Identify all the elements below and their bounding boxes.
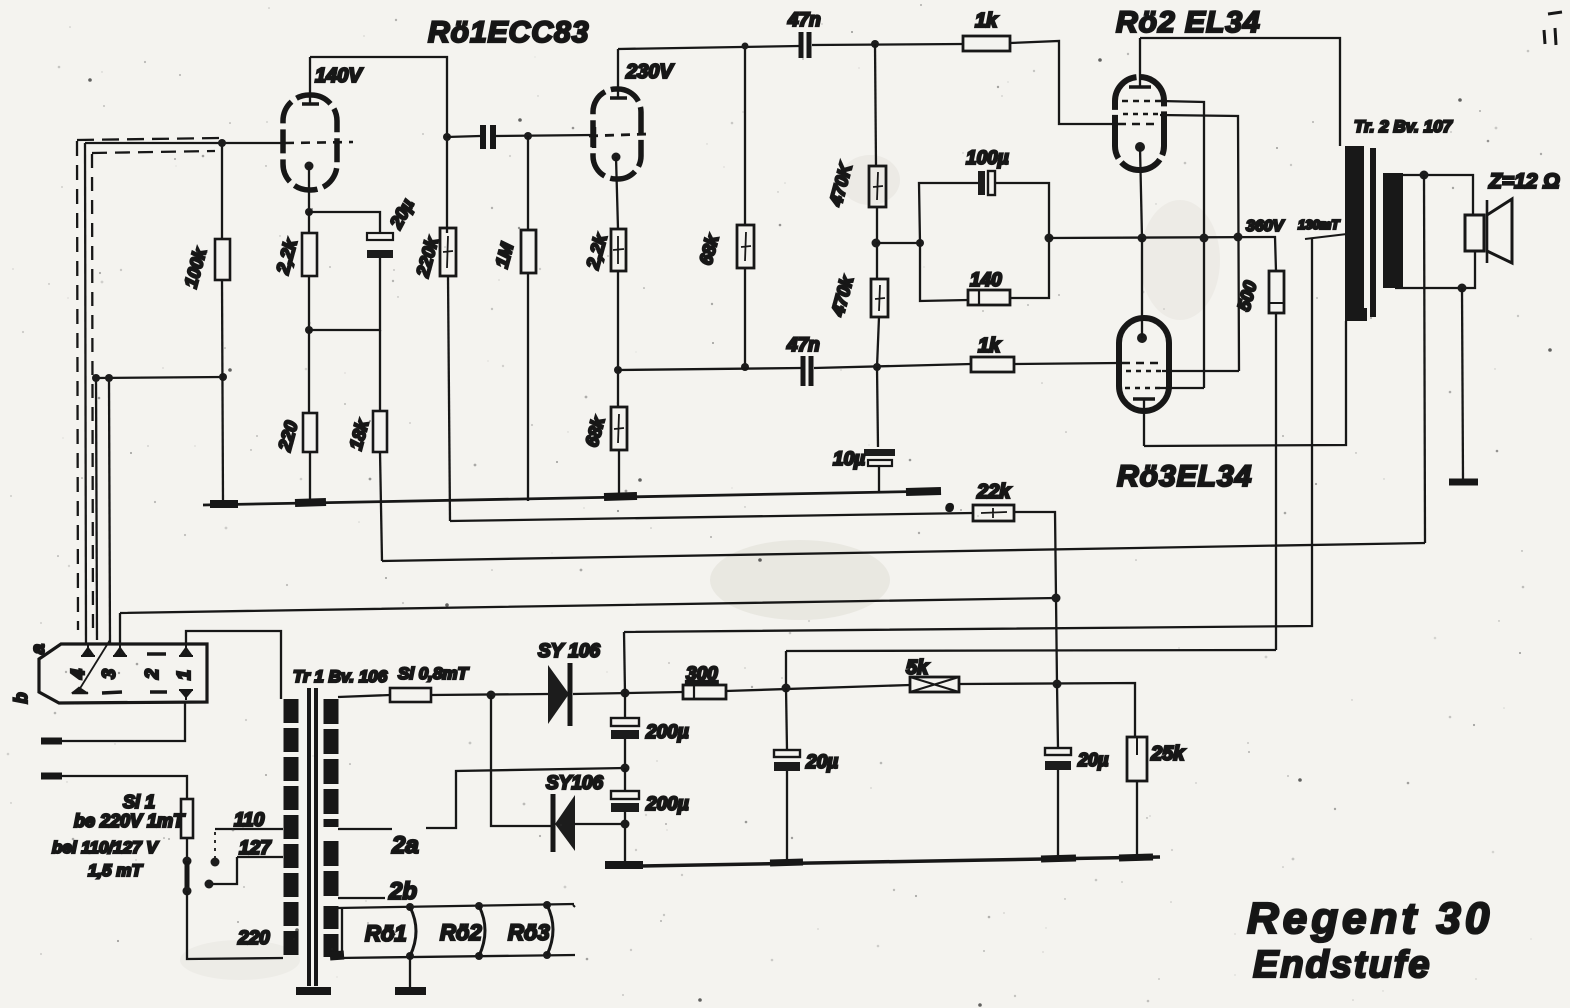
speaker horn — [1487, 199, 1512, 263]
svg-text:1k: 1k — [975, 10, 998, 32]
ground bus pad right end — [906, 491, 941, 492]
svg-text:bei 110/127 V: bei 110/127 V — [52, 838, 159, 857]
ground rail PSU — [641, 857, 1160, 866]
heater bus top — [338, 904, 574, 908]
connector switch arrow tip — [72, 688, 88, 693]
svg-text:e: e — [946, 499, 953, 514]
resistor 68k2 inner mark — [614, 414, 624, 443]
svg-text:a: a — [28, 644, 48, 654]
wire secondary bottom to speaker — [1395, 251, 1475, 288]
svg-text:Tr. 2 Bv. 107: Tr. 2 Bv. 107 — [1354, 117, 1454, 136]
resistor 22k inner mark — [981, 508, 1007, 518]
wire grid1 coupling — [447, 136, 480, 137]
tube Rö1b anode bar — [610, 96, 627, 99]
resistor 140 inner bar — [978, 290, 980, 305]
tube Rö1a anode bar — [302, 102, 319, 105]
wire 2a riser — [338, 768, 625, 829]
resistor 470k upper — [869, 166, 886, 207]
svg-text:5k: 5k — [906, 657, 929, 679]
node dot A — [92, 374, 100, 382]
wire Rö2 anode rail to primary top — [1140, 38, 1340, 146]
wire 2b tap — [338, 897, 385, 899]
node diode2 out — [621, 820, 630, 829]
wire 220R bottom to bus — [309, 452, 311, 503]
tube Rö1b anode lead — [617, 49, 619, 98]
svg-text:Rö3EL34: Rö3EL34 — [1117, 460, 1252, 493]
wire 1k2 to Rö3 grid — [1014, 363, 1119, 364]
mains stub 2 bar — [41, 773, 62, 780]
capacitor 20µ psu1 filled plate — [774, 762, 800, 771]
wire 220R top — [308, 330, 310, 413]
diode SY106 upper cathode bar — [568, 663, 573, 726]
resistor 18k — [373, 411, 387, 452]
capacitor 20µ psu1 hollow plate — [774, 750, 800, 757]
capacitor 47n bottom plate2 — [809, 356, 814, 386]
wire Rö3 anode to primary bottom — [1144, 321, 1346, 446]
capacitor 47n top plate2 — [807, 32, 812, 58]
switch contact dot upper — [183, 857, 192, 866]
transformer Tr1 core line left — [307, 688, 311, 986]
svg-text:110: 110 — [234, 810, 265, 831]
wire 100k bottom to bus — [222, 280, 223, 503]
svg-text:4: 4 — [68, 669, 88, 680]
svg-text:360V: 360V — [1246, 218, 1285, 235]
svg-text:22k: 22k — [976, 481, 1011, 503]
diode SY106 lower cathode bar — [551, 794, 556, 852]
ground rail pad 25k — [1119, 857, 1153, 858]
transformer Tr2 primary foot — [1345, 308, 1367, 321]
wire 200µ1 bottom to mid node — [624, 739, 626, 768]
tube Rö1b grid entry bar — [592, 127, 597, 148]
capacitor 100µ plate hollow — [988, 171, 995, 195]
wire 300 to 5k — [726, 685, 910, 691]
switch contact dot lower — [183, 887, 192, 896]
tap 127 contact dot — [205, 880, 214, 889]
svg-text:Rö2 EL34: Rö2 EL34 — [1116, 6, 1261, 39]
resistor 68k first — [737, 225, 754, 268]
tube Rö3 anode bar — [1133, 397, 1155, 401]
node anode1 junction — [443, 133, 451, 141]
tube Rö1a cathode lead — [308, 166, 310, 212]
connector switch diagonal — [79, 640, 110, 690]
wire Rö3 g2 to 1239 — [1162, 370, 1239, 372]
svg-text:Si 1: Si 1 — [123, 792, 155, 812]
capacitor 47n bottom plate1 — [801, 356, 806, 386]
heater node Rö3 top — [543, 901, 551, 909]
svg-text:1: 1 — [174, 670, 194, 680]
wire 10µ to ground bus — [878, 466, 880, 492]
resistor 300 body — [683, 685, 726, 699]
resistor 1k top — [963, 36, 1010, 51]
node speaker ground tap — [1458, 284, 1467, 293]
wire 1k to Rö2 grid — [1010, 41, 1115, 124]
wire 2,2k2 bottom — [617, 271, 619, 407]
wire 68k2 bottom to bus — [618, 450, 620, 497]
wire 5k to 25k corner — [959, 683, 1135, 737]
capacitor 20µ plate top — [367, 233, 393, 240]
svg-text:2b: 2b — [388, 878, 417, 905]
svg-text:20µ: 20µ — [1077, 750, 1109, 770]
svg-text:b: b — [11, 693, 31, 704]
capacitor 100µ plate filled — [978, 171, 985, 195]
wire Rö2 g3 to 1204 — [1161, 101, 1204, 388]
svg-text:230V: 230V — [625, 61, 674, 83]
wire switch to 220 tap — [187, 891, 283, 959]
mains stub 1 bar — [41, 738, 62, 745]
tube Rö1a cathode dot — [305, 162, 314, 171]
wire fuse to switch — [186, 838, 188, 861]
wire pin3 line C long to 22k node — [120, 598, 1056, 645]
tube Rö2 cathode dot — [1135, 142, 1145, 152]
tap 110 wire — [215, 828, 283, 830]
ground bus pad 220R — [295, 502, 326, 503]
wire 470k mid — [876, 207, 878, 279]
wire 100k top — [221, 143, 223, 239]
node 47n2 line 68k — [741, 363, 749, 371]
resistor 25k inner line — [1136, 737, 1138, 755]
tube Rö2 g2 dashes — [1123, 113, 1160, 116]
wire 20µ psu1 bottom — [786, 771, 788, 862]
transformer Tr1 HV secondary winding — [324, 699, 339, 827]
wire bypass bottom — [309, 258, 380, 330]
node grid2 — [524, 132, 532, 140]
heater winding corner blob — [330, 955, 344, 956]
wire 47n2 line left — [618, 368, 801, 370]
resistor 100k — [215, 239, 230, 280]
wire 1M top — [527, 136, 529, 230]
svg-text:300: 300 — [686, 664, 718, 685]
node 47n2 left — [614, 366, 622, 374]
resistor 2,2k first — [302, 233, 317, 276]
wire feedback drop — [1424, 175, 1425, 543]
capacitor 20µ psu2 filled plate — [1045, 761, 1071, 770]
diode SY106 upper triangle — [548, 665, 569, 724]
svg-text:Endstufe: Endstufe — [1253, 944, 1432, 986]
resistor 220k inner mark — [443, 236, 453, 268]
wire Rö3 g3 to 1204 — [1160, 387, 1204, 389]
wire Rö2 g2 to 1238 — [1160, 115, 1239, 371]
wire 18k bottom feedback — [380, 452, 382, 561]
wire 470k2 bottom — [877, 317, 879, 367]
svg-text:Rö2: Rö2 — [440, 920, 482, 945]
resistor 22k — [973, 505, 1014, 521]
node screen feed tap — [782, 684, 791, 693]
tube Rö1a anode lead — [309, 57, 311, 104]
node feedback tap — [1420, 171, 1429, 180]
resistor 5k body — [910, 677, 959, 692]
wire 22k right down — [1014, 512, 1057, 684]
heater node Rö2 bottom — [475, 952, 483, 960]
node dot grid1 — [218, 139, 226, 147]
fuse Si 0,8mT — [390, 688, 431, 702]
node 470k top feed — [871, 40, 879, 48]
wire diode2 to cap node — [575, 823, 625, 825]
svg-text:2: 2 — [142, 669, 162, 680]
connector bottom dash pin2 — [150, 690, 167, 693]
heater brace Rö3 — [547, 905, 553, 955]
node B+ — [621, 689, 630, 698]
capacitor 20µ psu2 hollow plate — [1045, 748, 1071, 755]
scan speck bottom — [392, 905, 575, 935]
wire speaker ground drop — [1462, 288, 1463, 480]
label 130mT underline arrow — [1305, 227, 1347, 239]
svg-text:Tr 1 Bv. 106: Tr 1 Bv. 106 — [293, 667, 388, 686]
wire 200µ1 top — [624, 693, 626, 718]
tube Rö3 g1 dashes — [1122, 362, 1160, 365]
wire 47n to 1k — [812, 44, 963, 45]
wire diode1 to B+ node — [573, 692, 683, 694]
svg-text:SY106: SY106 — [546, 773, 603, 794]
tap 127 wire — [237, 856, 283, 858]
capacitor 200µ lower filled plate — [611, 803, 639, 812]
wire 18k top — [379, 330, 381, 411]
ground bus main — [203, 491, 941, 505]
ground bus pad left — [210, 500, 238, 508]
fuse Si1 — [181, 799, 193, 838]
ground heater — [395, 987, 426, 995]
resistor 68k1 inner mark — [741, 232, 751, 261]
tube Rö2 g1 dashes — [1118, 123, 1158, 126]
resistor 25k — [1127, 737, 1147, 781]
svg-text:25k: 25k — [1150, 743, 1185, 765]
wire 200µ2 bottom — [624, 812, 626, 864]
shield dashed vertical left — [77, 141, 78, 630]
capacitor 10µ plate filled — [864, 449, 895, 456]
line C2 center tap return — [624, 238, 1312, 632]
svg-text:220: 220 — [237, 928, 270, 949]
wire secondary top to speaker — [1388, 175, 1473, 215]
resistor 5k X mark — [910, 677, 959, 692]
ground bus pad 68k — [604, 496, 637, 497]
capacitor coupling plate2 — [490, 125, 496, 149]
connector bottom dash pin3 — [102, 692, 122, 693]
wire pin1 up over connector — [186, 631, 281, 699]
tap 110 contact dot — [211, 858, 220, 867]
resistor 140 body — [968, 290, 1010, 305]
switch bar — [185, 861, 190, 891]
ground rail left bar — [605, 861, 643, 869]
svg-text:Rö3: Rö3 — [508, 920, 550, 945]
wire 20µ psu2 leads — [1057, 684, 1058, 858]
transformer Tr1 core line right — [314, 688, 318, 986]
resistor 470k lower — [871, 279, 888, 317]
tube Rö3 g3 dashes — [1125, 387, 1160, 390]
svg-text:47n: 47n — [787, 10, 821, 31]
shield dashed line inner — [92, 151, 215, 153]
wire 68k1 bottom — [744, 268, 746, 367]
tube Rö1b envelope — [593, 89, 641, 179]
transformer Tr2 core bar — [1370, 148, 1376, 317]
pin 4 arrow — [81, 645, 95, 656]
tube Rö3 screen lead up — [1141, 238, 1143, 338]
wire HV secondary top to fuse — [338, 695, 390, 697]
wire coupling to grid2 — [496, 135, 593, 136]
svg-text:Si 0,8mT: Si 0,8mT — [398, 664, 470, 683]
tube Rö2 cathode lead — [1140, 147, 1142, 238]
node 47n2 470k — [873, 363, 881, 371]
svg-text:10µ: 10µ — [833, 449, 865, 470]
tap 110 dotted drop — [214, 832, 216, 858]
svg-text:2a: 2a — [391, 832, 419, 859]
diode SY106 lower triangle — [555, 795, 575, 851]
wire 10µ top feed — [877, 367, 878, 447]
heater node Rö1 bottom — [406, 952, 414, 960]
tube Rö2 envelope — [1115, 77, 1164, 170]
wire line2 to 22k — [450, 513, 973, 521]
connector bottom arrow pin1 — [179, 690, 193, 700]
feedback line A — [382, 543, 1425, 561]
node 1238 — [1234, 233, 1243, 242]
resistor 2,2k second inner mark — [613, 236, 624, 264]
capacitor 200µ upper filled plate — [611, 730, 639, 739]
node 220R top junction — [305, 326, 313, 334]
svg-text:SY 106: SY 106 — [538, 641, 600, 662]
tube Rö3 anode lead — [1143, 399, 1145, 446]
svg-text:200µ: 200µ — [645, 722, 689, 743]
node 470k mid — [872, 239, 881, 248]
svg-text:140: 140 — [970, 270, 1002, 291]
tube Rö2 anode bar — [1129, 85, 1151, 89]
wire loop down branch — [920, 243, 968, 301]
heater node Rö1 top — [406, 903, 414, 911]
heater brace Rö2 — [479, 906, 485, 956]
tube Rö1b cathode lead — [616, 157, 618, 229]
tube Rö2 anode lead — [1139, 38, 1141, 87]
pin 1 arrow — [179, 645, 193, 656]
svg-text:127: 127 — [239, 838, 272, 859]
transformer Tr1 heater winding — [324, 906, 339, 958]
resistor 220k — [440, 228, 456, 276]
node 20µ2 tap — [1053, 680, 1062, 689]
wire 47n2 to 1k2 — [814, 364, 971, 368]
node loop left — [916, 239, 924, 247]
node cathodes — [1138, 234, 1147, 243]
pin 2 dash — [147, 652, 166, 655]
wire screen feed down to B+ node — [785, 651, 787, 687]
speaker frame line — [1486, 200, 1489, 263]
wire 200µ2 top — [624, 768, 626, 791]
resistor 68k second — [611, 407, 627, 450]
svg-text:100µ: 100µ — [966, 148, 1009, 169]
wire node vertical x96 — [96, 378, 97, 640]
shield dashed line outer — [77, 138, 220, 140]
svg-text:130mT: 130mT — [1298, 217, 1340, 232]
resistor 500 divider — [1269, 302, 1284, 304]
heater bus bottom — [338, 955, 575, 958]
resistor 220R — [303, 413, 317, 452]
wire B+ up to C2 line — [624, 632, 625, 693]
transformer Tr1 mid secondary winding — [324, 841, 339, 898]
node 1204 — [1200, 234, 1209, 243]
wire 20µ psu1 top — [786, 688, 787, 750]
shield dashed vertical inner — [92, 154, 93, 637]
svg-text:140V: 140V — [315, 65, 363, 87]
tube Rö1b grid dashes — [589, 134, 648, 136]
node mid doubler — [621, 764, 630, 773]
wire 470k column top — [875, 44, 876, 166]
wire heater ground drop — [409, 956, 411, 990]
svg-text:1k: 1k — [978, 335, 1001, 357]
wire loop up branch — [919, 183, 978, 243]
wire 100µ 140 loop left — [876, 242, 920, 244]
heater brace Rö1 — [410, 907, 416, 956]
transformer Tr2 primary winding — [1345, 146, 1364, 318]
wire cathode bypass top — [309, 212, 380, 233]
wire 140V rail — [310, 57, 447, 233]
capacitor 200µ lower hollow plate — [611, 791, 639, 799]
svg-text:3: 3 — [99, 669, 119, 679]
wire pin3 vertical from node — [109, 378, 110, 645]
resistor 500 — [1269, 271, 1284, 313]
tube Rö3 screen dot — [1137, 333, 1147, 343]
scan mark top right — [1544, 12, 1562, 45]
wire 500 bottom to screen feed — [1275, 313, 1277, 650]
resistor 1M — [521, 230, 536, 273]
heater box left edge — [341, 908, 343, 957]
wire 100µ to right corner — [995, 183, 1049, 238]
screen feed line 650 — [786, 650, 1276, 651]
tube Rö1b cathode dot — [612, 153, 621, 162]
ground core — [296, 987, 331, 995]
wire input to tube1 grid — [85, 142, 283, 144]
wire anode2 rail to 47n — [618, 46, 799, 49]
speaker box — [1465, 215, 1484, 251]
node cathode1 junction — [305, 208, 313, 216]
capacitor 20µ plate bottom — [367, 250, 393, 258]
wire 68k1 top feed — [744, 47, 746, 225]
resistor 470k upper inner mark — [873, 172, 883, 200]
connector plug outline — [39, 644, 207, 703]
wire 1M bottom to bus — [527, 273, 529, 501]
capacitor 10µ plate hollow — [868, 460, 892, 466]
node doubler tap — [487, 691, 496, 700]
capacitor 200µ upper hollow plate — [611, 718, 639, 726]
tube Rö2 g3 dashes — [1122, 100, 1161, 103]
ground rail pad 20µ2 — [1041, 858, 1076, 859]
svg-text:Rö1ECC83: Rö1ECC83 — [428, 16, 589, 49]
wire 25k bottom — [1136, 781, 1138, 857]
node line C end — [1052, 594, 1061, 603]
heater node Rö2 top — [475, 902, 483, 910]
svg-text:20µ: 20µ — [805, 752, 838, 773]
screens line 360V — [1049, 237, 1276, 271]
heater node Rö3 bottom — [543, 951, 551, 959]
node 68k1 top — [742, 43, 749, 50]
node dot C — [219, 373, 227, 381]
node dot B — [105, 374, 113, 382]
resistor 2,2k second — [611, 229, 626, 271]
resistor 300 inner bar — [693, 685, 695, 699]
svg-text:be 220V 1mT: be 220V 1mT — [74, 811, 186, 831]
svg-text:1,5 mT: 1,5 mT — [88, 861, 143, 880]
wire 2,2k to node — [308, 212, 310, 330]
resistor 1k bottom — [971, 357, 1014, 372]
ground rail pad 20µ1 — [770, 862, 803, 863]
wire node horizontal y377 — [95, 377, 223, 378]
tube Rö1a envelope — [283, 95, 337, 190]
wire pin4 vertical — [85, 143, 86, 645]
wire stub2 to fuse — [62, 776, 187, 799]
tap 127 step — [211, 857, 237, 884]
tube Rö3 g2 dashes — [1126, 370, 1162, 373]
pin 3 arrow — [113, 645, 127, 656]
wire 220k bottom to line2 — [448, 276, 450, 521]
svg-text:47n: 47n — [786, 335, 820, 356]
svg-text:Regent 30: Regent 30 — [1247, 894, 1493, 943]
svg-text:Z=12 Ω: Z=12 Ω — [1488, 170, 1560, 193]
resistor 470k lower inner mark — [875, 285, 885, 311]
capacitor 47n top plate1 — [799, 32, 804, 58]
